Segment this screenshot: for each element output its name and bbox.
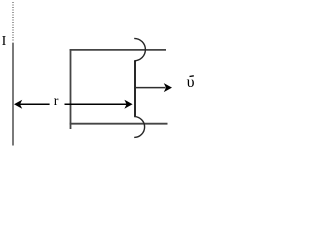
- loop left side: [70, 49, 72, 129]
- vector bar over v: [190, 75, 194, 78]
- crossover hop bottom: [134, 117, 144, 138]
- wire I upper dotted section: [12, 2, 14, 43]
- label r (distance): [54, 94, 59, 110]
- loop top side (rail): [70, 49, 166, 51]
- label I (current): [2, 34, 7, 50]
- dimension arrow r right segment: [65, 103, 127, 105]
- crossover hop top: [134, 38, 145, 60]
- label v (velocity): [187, 74, 195, 92]
- velocity arrow: [135, 87, 166, 89]
- dimension arrow r left segment: [20, 103, 50, 105]
- loop bottom side (rail): [70, 123, 168, 125]
- conductor rod: [134, 61, 136, 117]
- wire I lower solid section: [12, 43, 14, 146]
